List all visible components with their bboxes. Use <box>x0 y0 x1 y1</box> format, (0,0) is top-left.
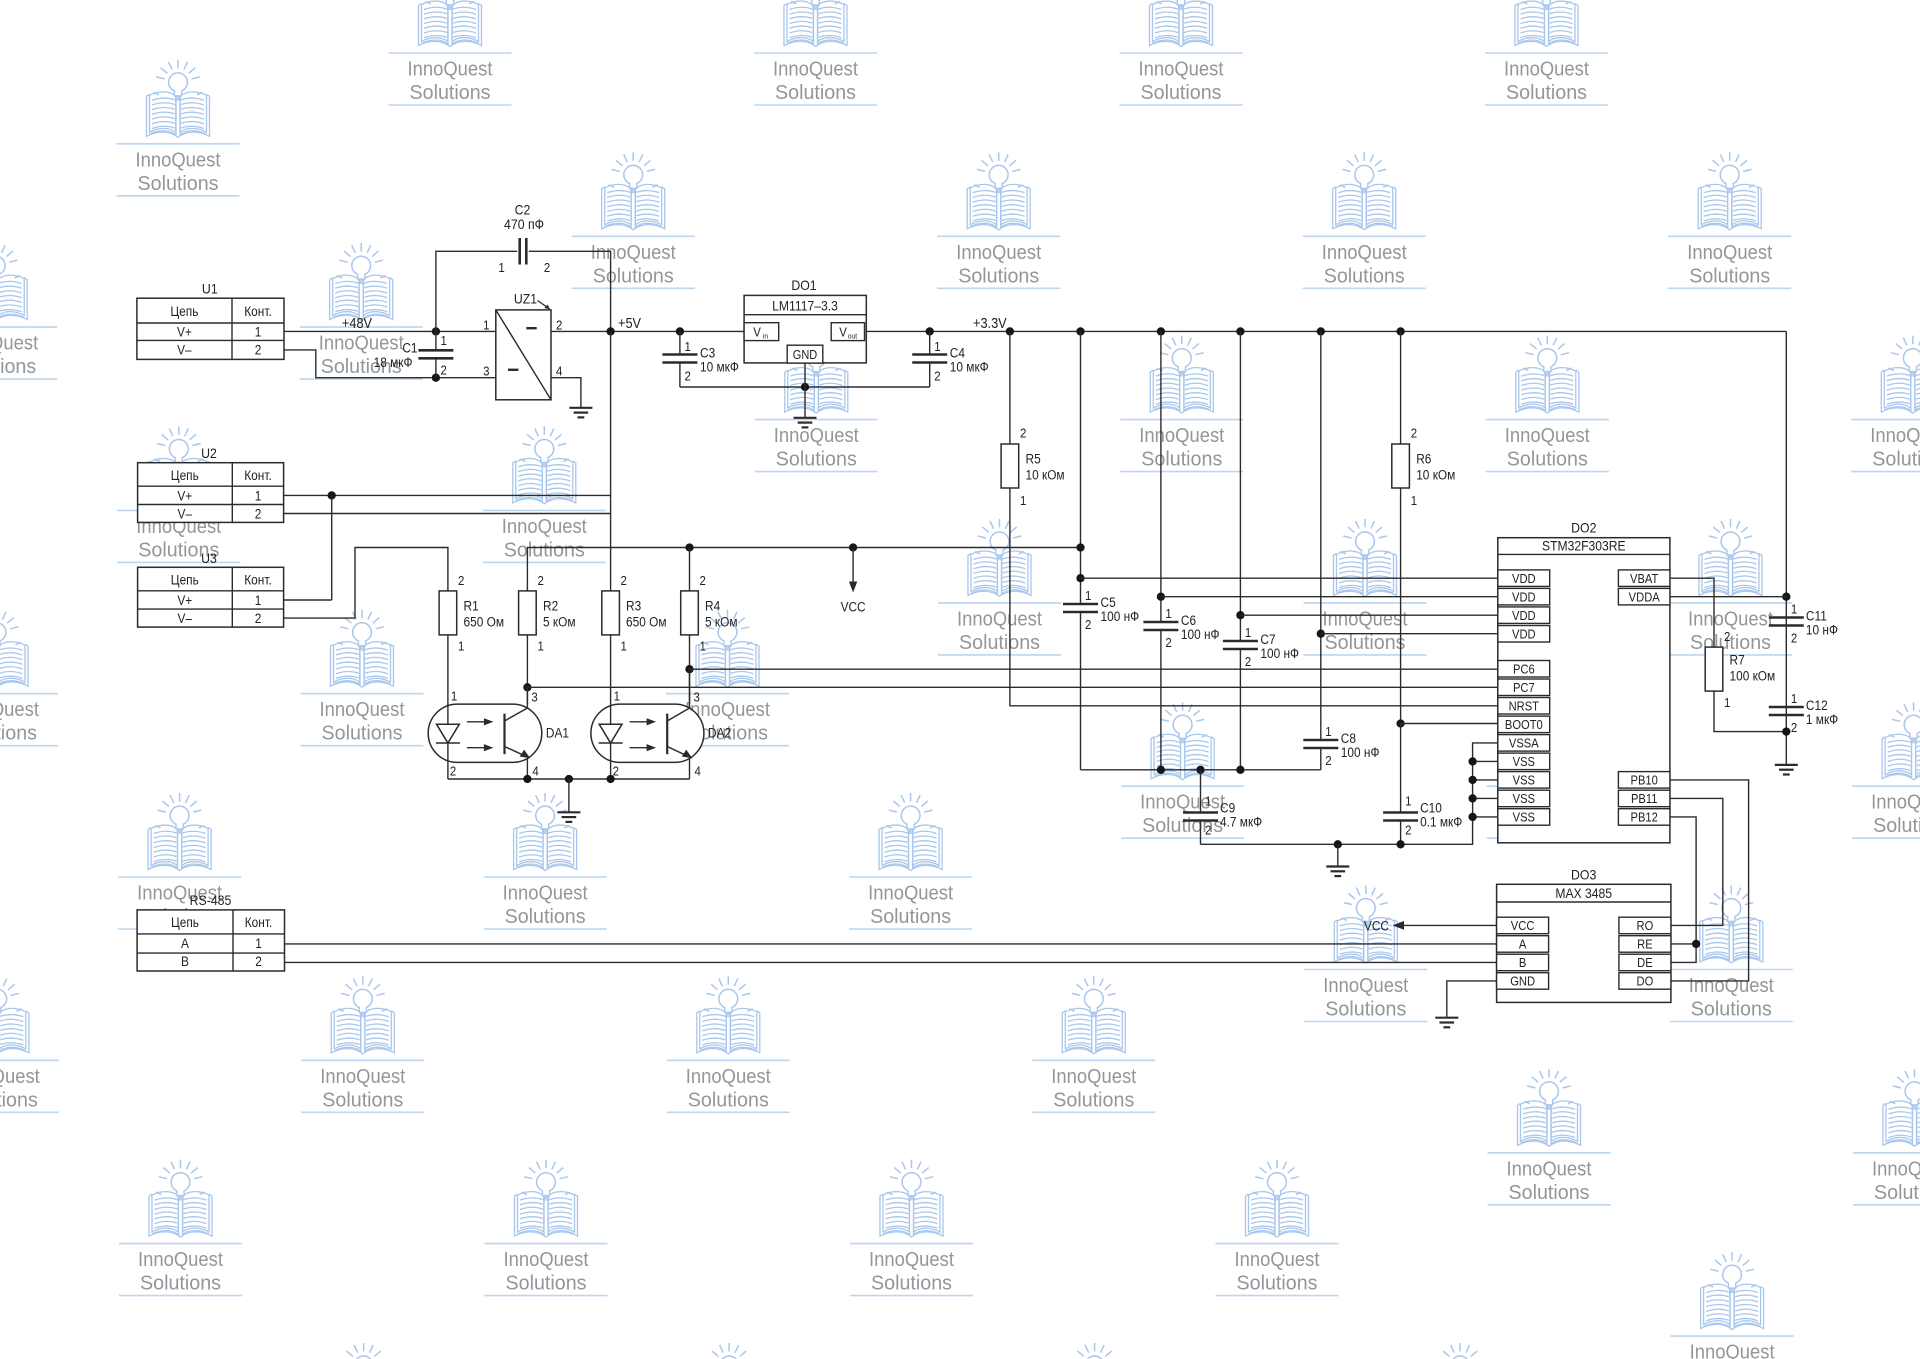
resistor R1 650 Ом <box>439 573 504 653</box>
pin box VSS <box>1498 809 1550 826</box>
svg-text:InnoQuest: InnoQuest <box>0 698 39 721</box>
pin box DE <box>1619 954 1671 971</box>
svg-text:1: 1 <box>451 689 458 704</box>
svg-text:InnoQuest: InnoQuest <box>503 882 588 905</box>
wire PB12 to DO3 RE/DE <box>1670 817 1696 963</box>
node C3 top <box>676 327 684 335</box>
svg-text:1: 1 <box>255 488 262 504</box>
svg-text:InnoQuest: InnoQuest <box>1139 58 1224 81</box>
resistor R2 5 кОм <box>519 573 576 653</box>
wire C2 branch top loop <box>436 251 517 331</box>
svg-text:V+: V+ <box>177 592 192 608</box>
svg-text:InnoQuest: InnoQuest <box>0 1065 40 1088</box>
svg-text:VDD: VDD <box>1512 571 1536 586</box>
svg-text:InnoQuest: InnoQuest <box>1870 424 1920 447</box>
wire RE stub <box>1671 943 1696 945</box>
connector RS-485 table <box>137 892 284 971</box>
svg-text:2: 2 <box>538 573 545 588</box>
svg-text:1: 1 <box>1165 606 1172 621</box>
svg-text:Цепь: Цепь <box>171 467 199 483</box>
wire ground stem <box>568 779 570 812</box>
svg-text:InnoQuest: InnoQuest <box>1689 974 1774 997</box>
wire +48V rail from U1.V+ to UZ1 pin 1 <box>284 330 496 332</box>
svg-text:VBAT: VBAT <box>1630 571 1659 586</box>
svg-text:Цепь: Цепь <box>170 303 198 319</box>
svg-text:2: 2 <box>255 506 262 522</box>
svg-text:Solutions: Solutions <box>140 1272 221 1295</box>
svg-text:InnoQuest: InnoQuest <box>1507 1157 1592 1180</box>
pin box RE <box>1619 936 1671 953</box>
node C7 on VSS bus <box>1236 766 1244 774</box>
svg-text:R3: R3 <box>626 598 641 614</box>
svg-text:2: 2 <box>1165 635 1172 650</box>
svg-text:1: 1 <box>1405 794 1412 809</box>
svg-text:2: 2 <box>544 260 551 275</box>
svg-text:R2: R2 <box>543 598 558 614</box>
pin box PC7 <box>1498 679 1550 696</box>
svg-text:2: 2 <box>458 573 465 588</box>
svg-text:DO1: DO1 <box>791 277 816 293</box>
pin box GND <box>1497 973 1549 990</box>
wire R1 to DA1 pin1 <box>447 635 449 724</box>
svg-text:InnoQuest: InnoQuest <box>319 332 404 355</box>
wire emitter ground bus DA1-DA2 <box>447 762 449 779</box>
svg-text:InnoQuest: InnoQuest <box>504 1248 589 1271</box>
ground symbol at DO3 <box>1435 1017 1458 1019</box>
svg-text:InnoQuest: InnoQuest <box>1051 1065 1136 1088</box>
svg-text:VCC: VCC <box>841 599 866 615</box>
svg-text:InnoQuest: InnoQuest <box>774 424 859 447</box>
wire DO3 GND to ground <box>1447 981 1497 1018</box>
svg-text:R6: R6 <box>1416 451 1431 467</box>
wire R7 bottom to C12 net <box>1714 691 1786 732</box>
svg-text:1: 1 <box>621 639 628 654</box>
svg-text:4: 4 <box>695 764 702 779</box>
svg-text:VSSA: VSSA <box>1509 736 1539 751</box>
wire VDD3 line <box>1240 614 1497 616</box>
svg-text:10 мкФ: 10 мкФ <box>700 359 739 375</box>
capacitor C3 10 мкФ <box>662 331 738 387</box>
wire PB11 to DO3 RO <box>1670 798 1723 925</box>
svg-text:2: 2 <box>1405 823 1412 838</box>
svg-text:1: 1 <box>1411 493 1418 508</box>
svg-text:Цепь: Цепь <box>171 914 199 930</box>
svg-text:InnoQuest: InnoQuest <box>1687 241 1772 264</box>
svg-text:100 нФ: 100 нФ <box>1181 626 1220 642</box>
svg-text:Solutions: Solutions <box>0 1088 38 1111</box>
capacitor C7 100 нФ with VDD tap <box>1223 327 1299 669</box>
svg-text:LM1117–3.3: LM1117–3.3 <box>772 298 838 314</box>
svg-text:InnoQuest: InnoQuest <box>868 882 953 905</box>
svg-text:10 кОм: 10 кОм <box>1416 467 1455 483</box>
node C10 bottom <box>1396 840 1404 848</box>
svg-text:1: 1 <box>441 333 448 348</box>
wire VCC rail R2..C5 <box>527 548 1080 591</box>
svg-text:Solutions: Solutions <box>1141 448 1222 471</box>
svg-text:Solutions: Solutions <box>1691 998 1772 1021</box>
svg-text:+5V: +5V <box>618 315 642 331</box>
node DA2 pin3 junction to PC6 line <box>685 665 693 673</box>
connector U3 table <box>138 550 284 627</box>
svg-text:Solutions: Solutions <box>593 264 674 287</box>
svg-text:InnoQuest: InnoQuest <box>1872 1157 1920 1180</box>
pin box RO <box>1619 917 1671 934</box>
node GND stem crossing <box>801 383 809 391</box>
svg-text:InnoQuest: InnoQuest <box>773 58 858 81</box>
svg-text:2: 2 <box>621 573 628 588</box>
ground symbol below C12 <box>1775 764 1798 766</box>
svg-text:Solutions: Solutions <box>1237 1272 1318 1295</box>
svg-text:100 нФ: 100 нФ <box>1341 744 1380 760</box>
svg-text:Solutions: Solutions <box>1872 448 1920 471</box>
wire C6 bottom to VSS bus <box>1160 630 1162 770</box>
connector U1 table <box>137 281 284 360</box>
svg-text:DO: DO <box>1637 974 1654 989</box>
node C9 top on VSS bus <box>1196 766 1204 774</box>
wire C3-GND-C4 bottom bus <box>680 386 930 388</box>
svg-text:1: 1 <box>1205 794 1212 809</box>
svg-text:+48V: +48V <box>342 315 373 331</box>
pin box VCC <box>1497 917 1549 934</box>
svg-text:A: A <box>181 935 189 951</box>
resistor R3 650 Ом <box>602 573 667 653</box>
svg-text:InnoQuest: InnoQuest <box>957 607 1042 630</box>
svg-text:VSS: VSS <box>1513 792 1535 807</box>
svg-text:VSS: VSS <box>1513 810 1535 825</box>
svg-text:InnoQuest: InnoQuest <box>138 1248 223 1271</box>
svg-text:1: 1 <box>1020 493 1027 508</box>
svg-text:+3.3V: +3.3V <box>973 315 1008 331</box>
node DA2 pin2 <box>606 775 614 783</box>
svg-text:R4: R4 <box>705 598 720 614</box>
connector U2 table <box>138 445 284 522</box>
wire U1.V- to UZ1 pin 3 <box>284 350 496 378</box>
pin box PB10 <box>1618 772 1670 789</box>
VCC arrow at DO3 <box>1396 924 1497 926</box>
pin box VBAT <box>1618 570 1670 587</box>
svg-text:Solutions: Solutions <box>1141 81 1222 104</box>
node VDDA junction <box>1782 593 1790 601</box>
svg-text:100 нФ: 100 нФ <box>1260 645 1299 661</box>
svg-text:BOOT0: BOOT0 <box>1505 717 1543 732</box>
capacitor C5 100 нФ with VDD tap <box>1063 327 1139 632</box>
node R7/C12 junction <box>1782 727 1790 735</box>
wire BOOT0 line to DO2 <box>1401 723 1498 725</box>
wire B line RS-485 to DO3 <box>285 961 1497 963</box>
svg-text:2: 2 <box>1724 629 1731 644</box>
svg-text:2: 2 <box>1791 720 1798 735</box>
svg-text:NRST: NRST <box>1509 699 1540 714</box>
wire C8 bottom to VSS bus <box>1320 748 1322 770</box>
wire R6 to BOOT0 junction <box>1400 488 1402 724</box>
svg-text:InnoQuest: InnoQuest <box>1505 424 1590 447</box>
svg-text:InnoQuest: InnoQuest <box>1688 607 1773 630</box>
svg-text:2: 2 <box>700 573 707 588</box>
svg-text:InnoQuest: InnoQuest <box>869 1248 954 1271</box>
svg-text:5 кОм: 5 кОм <box>543 614 575 630</box>
svg-text:5 кОм: 5 кОм <box>705 614 737 630</box>
svg-text:Solutions: Solutions <box>505 905 586 928</box>
pin box PB12 <box>1618 809 1670 826</box>
capacitor C12 1 мкФ <box>1769 691 1838 735</box>
svg-text:InnoQuest: InnoQuest <box>1322 241 1407 264</box>
wire DA2 pin3 stub <box>689 669 691 704</box>
wire VDDA line <box>1670 596 1786 598</box>
svg-text:DA1: DA1 <box>546 725 569 741</box>
pin box B <box>1497 954 1549 971</box>
svg-text:InnoQuest: InnoQuest <box>1871 791 1920 814</box>
svg-text:100 нФ: 100 нФ <box>1101 608 1140 624</box>
svg-text:DE: DE <box>1637 956 1653 971</box>
wire UZ1 pin4 to ground <box>551 378 581 408</box>
svg-text:InnoQuest: InnoQuest <box>956 241 1041 264</box>
svg-text:Solutions: Solutions <box>871 1272 952 1295</box>
wire +3.3V down right side to VDDA/C11/C12 <box>1785 331 1787 765</box>
svg-text:in: in <box>763 333 768 340</box>
svg-text:VSS: VSS <box>1513 754 1535 769</box>
svg-text:3: 3 <box>483 364 490 379</box>
ground symbol below DO1 <box>794 417 817 419</box>
svg-text:VCC: VCC <box>1511 919 1535 934</box>
svg-text:1: 1 <box>934 339 941 354</box>
wire GND box stem <box>804 363 806 418</box>
wire VBAT to R7 <box>1670 578 1714 647</box>
pin box VDD <box>1498 626 1550 643</box>
svg-text:Solutions: Solutions <box>688 1088 769 1111</box>
node U2.V+ / U3.V+ junction <box>328 491 336 499</box>
svg-text:Solutions: Solutions <box>322 1088 403 1111</box>
optocoupler DA1 <box>428 689 569 779</box>
svg-text:4: 4 <box>532 764 539 779</box>
svg-text:Solutions: Solutions <box>1690 631 1771 654</box>
capacitor C8 100 нФ with VDD tap <box>1303 327 1379 768</box>
svg-text:InnoQuest: InnoQuest <box>1504 58 1589 81</box>
resistor R7 100 кОм <box>1705 629 1775 710</box>
svg-text:2: 2 <box>1325 753 1332 768</box>
svg-text:Solutions: Solutions <box>776 448 857 471</box>
capacitor C2 470 пФ <box>498 202 550 275</box>
svg-text:2: 2 <box>685 369 692 384</box>
pin box NRST <box>1498 698 1550 715</box>
svg-text:VDD: VDD <box>1512 590 1536 605</box>
svg-text:2: 2 <box>255 342 262 358</box>
svg-text:Конт.: Конт. <box>244 467 271 483</box>
svg-text:PB11: PB11 <box>1631 792 1658 807</box>
svg-text:1: 1 <box>255 324 262 340</box>
svg-text:InnoQuest: InnoQuest <box>1690 1341 1775 1359</box>
svg-text:1: 1 <box>1245 625 1252 640</box>
svg-text:Solutions: Solutions <box>0 722 37 745</box>
capacitor C9 4.7 мкФ <box>1183 770 1262 845</box>
wire +5V rail UZ1 pin2 to DO1 Vin <box>551 330 744 332</box>
svg-text:Solutions: Solutions <box>0 355 36 378</box>
svg-text:2: 2 <box>934 369 941 384</box>
wire A line RS-485 to DO3 <box>285 943 1497 945</box>
wire U3.V- up to R1 top <box>284 548 448 619</box>
svg-text:RO: RO <box>1637 919 1654 934</box>
svg-text:VDD: VDD <box>1512 627 1536 642</box>
svg-text:InnoQuest: InnoQuest <box>502 515 587 538</box>
svg-text:1: 1 <box>1724 695 1731 710</box>
svg-text:Solutions: Solutions <box>775 81 856 104</box>
svg-text:1: 1 <box>614 689 621 704</box>
node VCC arrow tap <box>849 543 857 551</box>
svg-text:V+: V+ <box>177 488 192 504</box>
resistor R6 10 кОм <box>1392 331 1455 508</box>
wire PB10 to DO3 DO <box>1670 780 1749 981</box>
pin box VDD <box>1498 588 1550 605</box>
DC-DC converter UZ1 <box>483 291 562 400</box>
svg-text:1: 1 <box>255 935 262 951</box>
svg-text:A: A <box>1519 937 1526 952</box>
microcontroller DO2 STM32F303RE <box>1498 520 1670 843</box>
svg-text:PC6: PC6 <box>1513 662 1535 677</box>
svg-text:1: 1 <box>1791 602 1798 617</box>
svg-text:650 Ом: 650 Ом <box>464 614 504 630</box>
svg-text:Solutions: Solutions <box>1325 998 1406 1021</box>
pin box VSS <box>1498 753 1550 770</box>
svg-text:Цепь: Цепь <box>171 572 199 588</box>
node R5 top <box>1006 327 1014 335</box>
svg-text:R7: R7 <box>1730 652 1745 668</box>
svg-text:1: 1 <box>458 639 465 654</box>
wire VSS bus <box>1081 769 1321 771</box>
svg-text:4: 4 <box>556 364 563 379</box>
svg-text:Конт.: Конт. <box>244 572 271 588</box>
svg-text:InnoQuest: InnoQuest <box>320 1065 405 1088</box>
svg-text:VSS: VSS <box>1513 773 1535 788</box>
svg-text:1: 1 <box>483 318 490 333</box>
svg-text:V–: V– <box>178 610 193 626</box>
svg-text:18 мкФ: 18 мкФ <box>374 354 413 370</box>
svg-text:1: 1 <box>700 639 707 654</box>
svg-text:2: 2 <box>441 363 448 378</box>
svg-text:3: 3 <box>694 690 701 705</box>
svg-text:Solutions: Solutions <box>1873 814 1920 837</box>
svg-text:MAX 3485: MAX 3485 <box>1555 885 1612 901</box>
svg-text:InnoQuest: InnoQuest <box>591 241 676 264</box>
svg-text:V: V <box>839 325 847 340</box>
wire VDD4 line <box>1321 633 1498 635</box>
svg-text:VDD: VDD <box>1512 608 1536 623</box>
node RE junction <box>1692 940 1700 948</box>
svg-text:2: 2 <box>255 953 262 969</box>
svg-text:2: 2 <box>1020 426 1027 441</box>
wire R4 to DA2 pin3 <box>689 635 691 704</box>
svg-text:Solutions: Solutions <box>959 631 1040 654</box>
svg-text:Solutions: Solutions <box>504 538 585 561</box>
svg-text:2: 2 <box>556 318 563 333</box>
wire PC6 line from DA2 to DO2 <box>690 668 1498 670</box>
svg-text:RS-485: RS-485 <box>190 892 232 908</box>
svg-text:DA2: DA2 <box>708 725 731 741</box>
pin box VDD <box>1498 607 1550 624</box>
svg-text:2: 2 <box>450 764 457 779</box>
svg-text:Solutions: Solutions <box>506 1272 587 1295</box>
wire U2.V- to R3 drop <box>284 513 611 515</box>
svg-text:V–: V– <box>177 342 192 358</box>
svg-text:2: 2 <box>255 610 262 626</box>
svg-text:out: out <box>848 333 857 340</box>
svg-text:470 пФ: 470 пФ <box>504 216 544 232</box>
wire DA1 pin3 stub <box>526 687 528 704</box>
svg-text:PB12: PB12 <box>1631 810 1659 825</box>
svg-text:InnoQuest: InnoQuest <box>0 332 38 355</box>
svg-text:InnoQuest: InnoQuest <box>1235 1248 1320 1271</box>
svg-text:B: B <box>1519 956 1526 971</box>
node DA1 pin3 junction to PC7 line <box>523 683 531 691</box>
optocoupler DA2 <box>591 689 731 779</box>
svg-text:1: 1 <box>498 260 505 275</box>
svg-text:Solutions: Solutions <box>410 81 491 104</box>
svg-text:0.1 мкФ: 0.1 мкФ <box>1420 814 1462 830</box>
svg-text:InnoQuest: InnoQuest <box>1323 607 1408 630</box>
svg-text:DO2: DO2 <box>1571 520 1596 536</box>
svg-text:B: B <box>181 953 189 969</box>
pin box VDD <box>1498 570 1550 587</box>
svg-text:InnoQuest: InnoQuest <box>686 1065 771 1088</box>
node DA1 pin4 <box>523 775 531 783</box>
svg-text:UZ1: UZ1 <box>514 291 537 307</box>
svg-text:RE: RE <box>1637 937 1653 952</box>
wire C7 bottom to VSS bus <box>1239 649 1241 770</box>
wire R5 to NRST line <box>1010 488 1498 706</box>
wire PC7 line from DA1 to DO2 <box>527 686 1497 688</box>
pin box PB11 <box>1618 790 1670 807</box>
svg-text:InnoQuest: InnoQuest <box>320 698 405 721</box>
wire R2 to DA1 pin3 <box>526 635 528 704</box>
node C5/VCC rail junction <box>1076 543 1084 551</box>
capacitor C11 10 нФ <box>1769 602 1838 646</box>
svg-text:4.7 мкФ: 4.7 мкФ <box>1220 814 1262 830</box>
wire U2.V+ to +5V drop <box>284 494 611 496</box>
svg-text:VCC: VCC <box>1364 918 1389 934</box>
wire GND stem <box>1337 844 1339 866</box>
svg-text:R5: R5 <box>1026 451 1041 467</box>
svg-text:1: 1 <box>1085 588 1092 603</box>
svg-text:VDDA: VDDA <box>1629 590 1660 605</box>
pin box VDDA <box>1618 588 1670 605</box>
capacitor C1 18 мкФ <box>374 331 454 377</box>
svg-text:STM32F303RE: STM32F303RE <box>1542 538 1626 554</box>
wire bottom VSS/GND bus <box>1201 743 1498 844</box>
wire junction down to U3.V+ <box>331 495 333 600</box>
svg-text:InnoQuest: InnoQuest <box>1139 424 1224 447</box>
svg-text:2: 2 <box>1245 654 1252 669</box>
node +5V <box>606 327 614 335</box>
svg-text:650 Ом: 650 Ом <box>626 614 666 630</box>
svg-text:2: 2 <box>1791 631 1798 646</box>
svg-text:Solutions: Solutions <box>870 905 951 928</box>
svg-text:1: 1 <box>538 639 545 654</box>
node R4 top on VCC rail <box>685 543 693 551</box>
svg-text:100 кОм: 100 кОм <box>1730 668 1776 684</box>
svg-text:Конт.: Конт. <box>244 303 271 319</box>
svg-text:Solutions: Solutions <box>1689 264 1770 287</box>
ground symbol below optocouplers <box>557 811 580 813</box>
svg-text:Solutions: Solutions <box>1874 1181 1920 1204</box>
resistor R5 10 кОм <box>1001 331 1064 508</box>
svg-text:1: 1 <box>1791 691 1798 706</box>
svg-text:Solutions: Solutions <box>1053 1088 1134 1111</box>
capacitor C10 0.1 мкФ <box>1383 724 1462 845</box>
pin box VSS <box>1498 772 1550 789</box>
svg-text:1: 1 <box>685 339 692 354</box>
svg-text:InnoQuest: InnoQuest <box>1323 974 1408 997</box>
node ground tap <box>565 775 573 783</box>
svg-text:1: 1 <box>1325 724 1332 739</box>
ground symbol at UZ1 <box>569 407 592 409</box>
